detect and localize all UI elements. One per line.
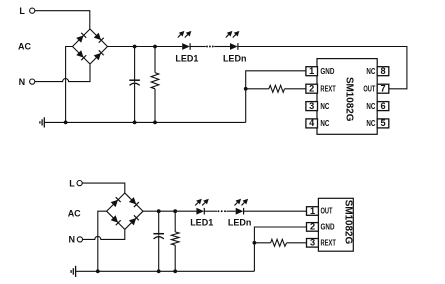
pin 3 box U1 — [306, 101, 318, 111]
pin label REXT (U2 pin 3) — [321, 239, 337, 248]
bridge rectifier BR1 diamond outline — [73, 29, 108, 64]
label LED1 (top circuit) — [175, 53, 198, 63]
wire LED1 to ellipsis (bottom) — [204, 210, 217, 212]
svg-text:NC: NC — [366, 102, 375, 111]
ground symbol (top circuit) — [40, 117, 44, 127]
LED LEDn (bottom circuit) diode symbol — [236, 208, 244, 215]
junction node resistor R3 branch top — [173, 209, 177, 213]
svg-text:6: 6 — [380, 101, 385, 111]
svg-text:SM1082G: SM1082G — [344, 77, 355, 122]
wire L terminal to bridge top vertex — [35, 11, 90, 29]
label AC (bottom circuit) — [68, 209, 81, 219]
op-amp U1 SM1082G body (8-pin) — [317, 59, 377, 135]
junction node resistor R3 branch bottom — [173, 269, 177, 273]
junction node bridge 2 negative / ground rail — [96, 269, 100, 273]
label LEDn (top circuit) — [223, 53, 247, 63]
svg-text:N: N — [69, 235, 76, 245]
svg-text:NC: NC — [320, 119, 329, 128]
resistor R3 (bleeder, vertical) — [171, 211, 179, 271]
svg-text:4: 4 — [309, 118, 315, 128]
resistor R4 (REXT set resistor, horizontal) — [254, 239, 306, 246]
pin label NC (U1 pin 8) — [366, 67, 375, 76]
svg-text:L: L — [19, 6, 25, 16]
svg-text:3: 3 — [310, 238, 315, 248]
diode D7 (BR2 bottom-left, cathode bottom vertex) — [111, 215, 121, 225]
junction node resistor branch bottom — [153, 121, 157, 125]
label LED1 (bottom circuit) — [190, 218, 213, 228]
wire GND pin 2 of U2 to ground rail — [254, 227, 306, 271]
wire ellipsis to LEDn — [214, 46, 230, 48]
svg-text:3: 3 — [309, 101, 314, 111]
svg-text:SM1082G: SM1082G — [342, 200, 353, 245]
pin label NC (U1 pin 3) — [320, 102, 329, 111]
svg-text:8: 8 — [380, 66, 385, 76]
svg-text:N: N — [19, 77, 26, 87]
wire GND pin 1 of U1 to ground rail — [246, 71, 306, 123]
label SM1082G (U2, rotated) — [342, 200, 353, 245]
LED LED1 (top circuit) diode symbol — [182, 43, 190, 50]
resistor R2 (REXT set resistor, horizontal) — [246, 85, 306, 92]
op-amp U2 SM1082G body (3-pin) — [318, 198, 353, 251]
pin label OUT (U1 pin 7) — [363, 84, 375, 93]
label N (bottom circuit) — [69, 235, 76, 245]
junction node REXT resistor / GND wire — [244, 87, 248, 91]
label SM1082G (U1, rotated) — [344, 77, 355, 122]
ground rail wire (bottom circuit) — [76, 270, 255, 272]
label L (bottom circuit) — [69, 178, 75, 188]
ellipsis node (series LED string continues, bottom) — [217, 210, 226, 212]
label AC (top circuit) — [18, 42, 31, 52]
wire LEDn to OUT pin 1 of U2 — [244, 210, 307, 212]
terminal N (top circuit) — [30, 79, 35, 84]
ground symbol (bottom circuit) — [71, 266, 76, 277]
LED LED1 (bottom circuit) diode symbol — [196, 208, 204, 215]
svg-text:NC: NC — [366, 119, 375, 128]
LED1 light emission arrows (bottom) — [195, 199, 209, 206]
diode D1 (BR1 top-left, anode left vertex, cathode top vertex) — [76, 33, 86, 43]
capacitor C2 (smoothing, polarized) — [153, 211, 164, 271]
diode D5 (BR2 top-left, cathode top vertex) — [111, 197, 121, 207]
LEDn light emission arrows — [226, 31, 240, 38]
svg-text:OUT: OUT — [321, 207, 333, 216]
wire L terminal to bridge 2 top vertex — [82, 183, 125, 193]
ellipsis node (series LED string continues) — [206, 46, 214, 48]
wire ellipsis to LEDn (bottom) — [226, 210, 235, 212]
svg-text:2: 2 — [310, 222, 315, 232]
svg-text:1: 1 — [309, 66, 314, 76]
pin 1 box U2 — [307, 206, 319, 216]
wire DC+ rail from BR1 right vertex to LED1 — [108, 46, 183, 48]
wire LED1 to ellipsis — [190, 46, 206, 48]
pin 1 box U1 — [306, 66, 318, 76]
junction node capacitor branch bottom — [133, 121, 137, 125]
junction node capacitor C2 branch bottom — [157, 269, 161, 273]
terminal N (bottom circuit) — [77, 237, 82, 242]
pin label NC (U1 pin 5) — [366, 119, 375, 128]
svg-text:OUT: OUT — [363, 84, 375, 93]
LED LEDn (top circuit) diode symbol — [230, 43, 238, 50]
svg-text:AC: AC — [18, 42, 31, 52]
svg-text:2: 2 — [309, 84, 314, 94]
pin label REXT (U1 pin 2) — [320, 84, 336, 93]
diode D8 (BR2 bottom-right, cathode right vertex) — [129, 215, 139, 225]
svg-text:REXT: REXT — [320, 84, 336, 93]
junction node resistor branch top — [153, 45, 157, 49]
pin 6 box U1 — [377, 101, 389, 111]
terminal L (top circuit) — [30, 8, 35, 13]
junction node REXT resistor / GND wire (bottom) — [253, 241, 257, 245]
ground rail wire (top circuit) — [44, 121, 245, 123]
svg-text:GND: GND — [320, 67, 334, 76]
pin 4 box U1 — [306, 118, 318, 128]
pin 2 box U1 — [306, 84, 318, 94]
diode D3 (BR1 bottom-left, anode left vertex, cathode bottom vertex) — [76, 50, 86, 60]
junction node at ground rail / bridge negative — [64, 121, 68, 125]
label LEDn (bottom circuit) — [228, 218, 252, 228]
LED1 light emission arrows — [178, 31, 192, 38]
wire BR2 left vertex to ground rail — [98, 211, 107, 271]
svg-text:LED1: LED1 — [175, 53, 198, 63]
wire LEDn to OUT pin 7 of U1 — [238, 47, 407, 89]
svg-text:L: L — [69, 178, 75, 188]
junction node capacitor C2 branch top — [157, 209, 161, 213]
terminal L (bottom circuit) — [77, 181, 82, 186]
pin label NC (U1 pin 4) — [320, 119, 329, 128]
svg-text:5: 5 — [380, 118, 385, 128]
diode D2 (BR1 top-right, anode top vertex, cathode right vertex) — [94, 33, 104, 43]
capacitor C1 (smoothing, polarized) — [129, 47, 140, 123]
pin 3 box U2 — [307, 238, 319, 248]
svg-text:GND: GND — [321, 223, 335, 232]
svg-text:LEDn: LEDn — [228, 218, 252, 228]
pin label GND (U1 pin 1) — [320, 67, 334, 76]
LEDn light emission arrows (bottom) — [235, 199, 249, 206]
svg-text:NC: NC — [366, 67, 375, 76]
svg-text:LEDn: LEDn — [223, 53, 247, 63]
svg-text:AC: AC — [68, 209, 81, 219]
pin 8 box U1 — [377, 66, 389, 76]
junction node capacitor branch top — [133, 45, 137, 49]
label L (top circuit) — [19, 6, 25, 16]
diode D6 (BR2 top-right, cathode right vertex) — [129, 197, 139, 207]
wire N terminal to bridge bottom vertex (with hop over vertical wire) — [35, 64, 90, 82]
bridge rectifier BR2 diamond outline — [107, 193, 143, 229]
resistor R1 (bleeder, vertical) — [151, 47, 159, 123]
pin 2 box U2 — [307, 222, 319, 232]
wire BR1 left vertex to ground rail — [66, 47, 73, 123]
pin label OUT (U2 pin 1) — [321, 207, 333, 216]
svg-text:1: 1 — [310, 206, 315, 216]
pin 7 box U1 — [377, 84, 389, 94]
pin label GND (U2 pin 2) — [321, 223, 335, 232]
diode D4 (BR1 bottom-right, anode bottom vertex, cathode right vertex) — [94, 50, 104, 60]
svg-text:7: 7 — [380, 84, 385, 94]
wire DC+ rail from BR2 right vertex to LED1 — [143, 210, 196, 212]
svg-text:REXT: REXT — [321, 239, 337, 248]
svg-text:NC: NC — [320, 102, 329, 111]
label N (top circuit) — [19, 77, 26, 87]
wire N terminal to bridge 2 bottom vertex (with hop over vertical wire) — [83, 229, 125, 239]
pin 5 box U1 — [377, 118, 389, 128]
svg-text:LED1: LED1 — [190, 218, 213, 228]
pin label NC (U1 pin 6) — [366, 102, 375, 111]
